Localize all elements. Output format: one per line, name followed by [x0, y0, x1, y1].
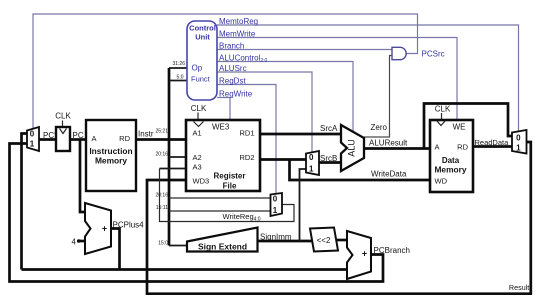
svg-text:MemtoReg: MemtoReg — [219, 17, 258, 26]
svg-text:CLK: CLK — [435, 105, 451, 114]
svg-text:ALUResult: ALUResult — [369, 139, 408, 148]
svg-text:+: + — [102, 224, 107, 234]
svg-text:A: A — [92, 134, 97, 143]
svg-text:MemWrite: MemWrite — [219, 30, 256, 39]
svg-text:PCBranch: PCBranch — [374, 246, 410, 255]
svg-text:A2: A2 — [193, 153, 202, 162]
svg-text:1: 1 — [516, 144, 521, 153]
svg-text:PC′: PC′ — [43, 131, 56, 140]
svg-text:25:21: 25:21 — [155, 129, 168, 135]
svg-text:0: 0 — [516, 134, 521, 143]
svg-text:Memory: Memory — [95, 156, 127, 166]
svg-text:Memory: Memory — [434, 165, 466, 175]
svg-text:RegDst: RegDst — [219, 77, 246, 86]
svg-text:Funct: Funct — [191, 75, 211, 84]
svg-text:20:16: 20:16 — [155, 193, 168, 199]
svg-text:+: + — [362, 249, 367, 259]
svg-text:WD: WD — [435, 177, 448, 186]
svg-text:A: A — [435, 143, 440, 152]
svg-text:15:11: 15:11 — [156, 205, 168, 211]
svg-text:Control: Control — [189, 24, 216, 33]
svg-text:SrcB: SrcB — [320, 154, 337, 163]
svg-text:4: 4 — [72, 238, 77, 247]
svg-text:15:0: 15:0 — [158, 241, 168, 247]
svg-text:<<2: <<2 — [317, 236, 331, 245]
svg-text:0: 0 — [30, 129, 35, 138]
svg-text:WE: WE — [453, 123, 466, 132]
svg-text:RD: RD — [457, 143, 468, 152]
svg-text:A3: A3 — [193, 163, 202, 172]
svg-text:0: 0 — [309, 153, 314, 162]
svg-text:Unit: Unit — [195, 33, 210, 42]
svg-text:CLK: CLK — [191, 104, 207, 113]
svg-text:31:26: 31:26 — [172, 61, 185, 67]
svg-text:Result: Result — [509, 283, 529, 292]
svg-text:0: 0 — [273, 195, 278, 204]
svg-text:Op: Op — [192, 64, 203, 73]
svg-text:1: 1 — [309, 165, 314, 174]
svg-text:WD3: WD3 — [193, 177, 210, 186]
svg-text:SrcA: SrcA — [320, 124, 338, 133]
svg-text:Branch: Branch — [219, 42, 244, 51]
svg-text:SignImm: SignImm — [260, 233, 292, 242]
svg-text:Zero: Zero — [371, 123, 388, 132]
svg-text:RD1: RD1 — [239, 129, 254, 138]
svg-text:ALU: ALU — [347, 139, 357, 157]
svg-text:CLK: CLK — [55, 112, 71, 121]
svg-text:Register: Register — [213, 172, 245, 181]
svg-text:PC: PC — [73, 131, 84, 140]
svg-text:5:0: 5:0 — [177, 75, 184, 81]
svg-text:20:16: 20:16 — [155, 152, 168, 158]
svg-text:Instr: Instr — [138, 130, 154, 139]
svg-text:Sign Extend: Sign Extend — [198, 242, 247, 252]
svg-text:1: 1 — [273, 206, 278, 215]
svg-text:PCPlus4: PCPlus4 — [113, 221, 145, 230]
svg-text:PCSrc: PCSrc — [422, 50, 445, 59]
svg-text:ALUControl2:0: ALUControl2:0 — [219, 54, 268, 65]
svg-text:WE3: WE3 — [212, 123, 230, 132]
svg-text:ALUSrc: ALUSrc — [219, 64, 247, 73]
svg-text:RD: RD — [119, 134, 130, 143]
svg-text:RegWrite: RegWrite — [219, 90, 253, 99]
svg-text:RD2: RD2 — [239, 153, 254, 162]
svg-text:A1: A1 — [193, 129, 202, 138]
svg-text:Instruction: Instruction — [89, 146, 132, 156]
svg-text:WriteData: WriteData — [371, 170, 407, 179]
svg-text:1: 1 — [30, 139, 35, 148]
svg-text:ReadData: ReadData — [475, 138, 510, 147]
svg-text:File: File — [223, 182, 237, 191]
